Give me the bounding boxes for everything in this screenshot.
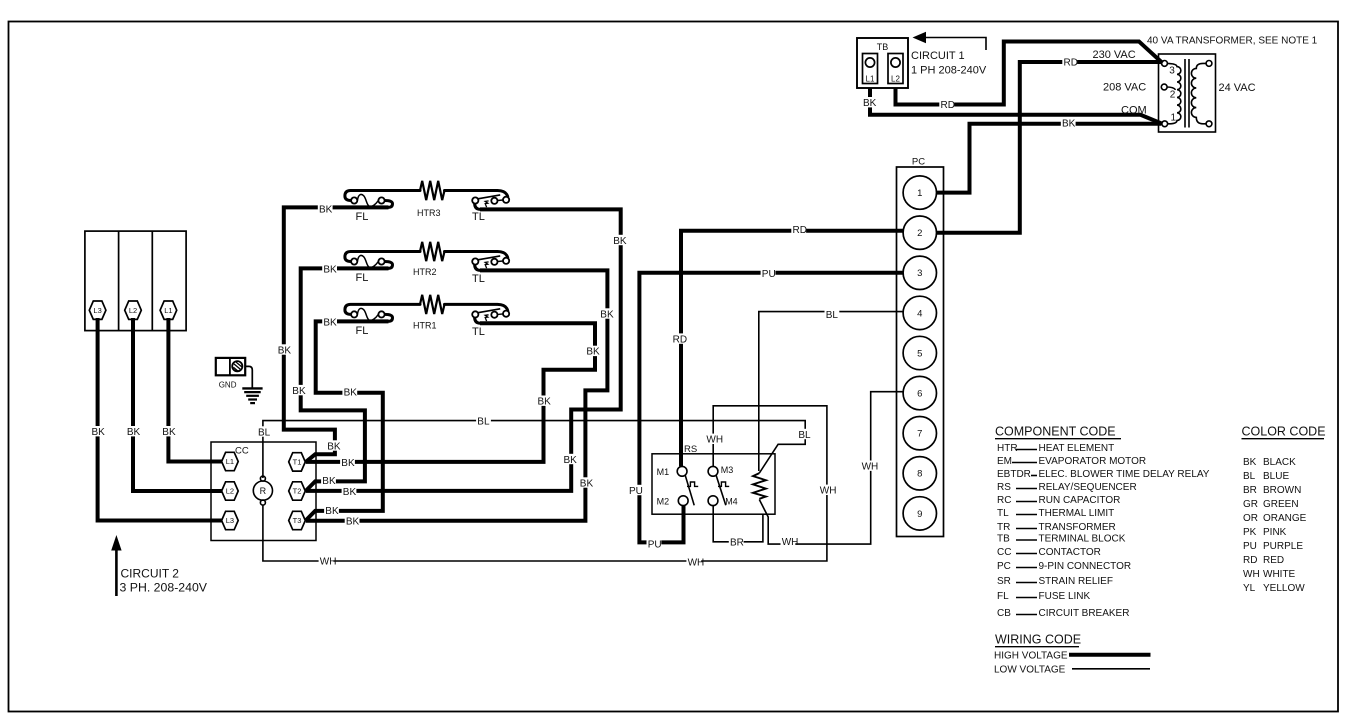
connector PC 9-pin	[897, 157, 944, 537]
svg-text:FL: FL	[356, 272, 369, 284]
svg-text:BK: BK	[325, 506, 339, 517]
svg-text:CIRCUIT BREAKER: CIRCUIT BREAKER	[1039, 608, 1130, 619]
contact M4	[708, 496, 718, 506]
svg-text:RS: RS	[997, 482, 1011, 493]
net label BK at T2 return	[342, 486, 357, 498]
svg-text:BL: BL	[477, 416, 490, 427]
svg-text:BROWN: BROWN	[1263, 485, 1301, 496]
svg-text:3: 3	[917, 268, 922, 279]
svg-text:L2: L2	[891, 75, 900, 84]
wire RD PC pin 2 to RS M1	[681, 231, 903, 467]
ground lug GND	[216, 358, 245, 375]
wire BR RS M4 to resistor bottom	[713, 506, 763, 542]
svg-text:L1: L1	[164, 306, 172, 315]
svg-text:RD: RD	[673, 334, 687, 345]
net label WH at resistor bottom	[781, 536, 799, 548]
svg-text:EM: EM	[997, 456, 1012, 467]
svg-text:BR: BR	[730, 537, 744, 548]
svg-text:BLACK: BLACK	[1263, 457, 1296, 468]
breaker terminal L1	[160, 301, 177, 319]
svg-text:TL: TL	[472, 326, 485, 338]
CC coil R	[253, 476, 272, 505]
svg-text:PU: PU	[648, 540, 662, 551]
svg-text:YELLOW: YELLOW	[1263, 583, 1305, 594]
net label WH bus left	[319, 555, 337, 567]
svg-text:ORANGE: ORANGE	[1263, 513, 1307, 524]
svg-text:TL: TL	[997, 508, 1009, 519]
svg-text:FUSE LINK: FUSE LINK	[1039, 591, 1091, 602]
svg-text:WHITE: WHITE	[1263, 569, 1296, 580]
svg-text:LOW VOLTAGE: LOW VOLTAGE	[994, 664, 1066, 675]
svg-text:EVAPORATOR MOTOR: EVAPORATOR MOTOR	[1039, 456, 1147, 467]
svg-text:BK: BK	[538, 397, 552, 408]
svg-text:BK: BK	[127, 427, 141, 438]
svg-text:RD: RD	[941, 100, 955, 111]
svg-text:PK: PK	[1243, 527, 1257, 538]
net label RD PC pin 2 run	[791, 224, 807, 236]
wire BK from TB L1 to transformer COM tap 1	[870, 86, 1163, 124]
svg-text:BK: BK	[580, 478, 594, 489]
circuit 2 arrow	[111, 535, 121, 596]
svg-text:T1: T1	[293, 458, 302, 467]
net label WH PC pin 6 riser	[860, 461, 878, 473]
svg-text:BL: BL	[826, 310, 839, 321]
net label WH bus right	[686, 557, 704, 569]
heat element HTR2	[420, 242, 445, 261]
net label BK at T3 feed	[324, 505, 339, 517]
net label BK HTR3 return riser	[562, 454, 577, 466]
svg-text:RUN CAPACITOR: RUN CAPACITOR	[1039, 495, 1121, 506]
heat element HTR3	[420, 181, 445, 200]
resistor (sequencer heater element)	[753, 473, 766, 499]
svg-text:BK: BK	[863, 98, 877, 109]
svg-text:L1: L1	[866, 75, 875, 84]
svg-text:FL: FL	[356, 325, 369, 337]
net label BK HTR2 TL riser	[599, 308, 614, 320]
svg-text:230 VAC: 230 VAC	[1093, 49, 1136, 61]
svg-text:CONTACTOR: CONTACTOR	[1039, 547, 1101, 558]
svg-text:BK: BK	[319, 204, 333, 215]
net label BL at resistor	[797, 429, 812, 441]
svg-text:RD: RD	[1064, 58, 1078, 69]
svg-text:9-PIN CONNECTOR: 9-PIN CONNECTOR	[1039, 561, 1132, 572]
net label BK at T1 return	[340, 457, 355, 469]
fuse link FL (HTR2 branch)	[345, 252, 420, 269]
svg-text:3 PH. 208-240V: 3 PH. 208-240V	[120, 580, 208, 594]
contact M3	[708, 466, 729, 505]
breaker terminal L3	[89, 301, 106, 319]
fuse link FL (HTR1 branch)	[345, 304, 420, 321]
svg-text:TL: TL	[472, 211, 485, 223]
net label BK at T3 return	[345, 516, 360, 528]
circuit breaker CB bank	[85, 231, 186, 331]
svg-text:1: 1	[917, 188, 922, 199]
net label BK T3-HTR1 run	[342, 386, 357, 398]
wire BL PC pin 4 to RS resistor top	[759, 312, 904, 471]
svg-text:HIGH VOLTAGE: HIGH VOLTAGE	[994, 650, 1068, 661]
svg-text:YL: YL	[1243, 583, 1256, 594]
wire BK HTR3 thermal limit back to CC T2	[306, 209, 621, 491]
circuit 1 pointer arrow	[913, 32, 987, 50]
net label BK HTR1 TL riser	[585, 346, 600, 358]
ground symbol	[242, 366, 262, 403]
net label BK at T2 feed	[321, 475, 336, 487]
svg-text:L2: L2	[129, 306, 137, 315]
svg-text:CC: CC	[997, 547, 1011, 558]
svg-text:2: 2	[1170, 90, 1176, 101]
svg-text:GND: GND	[219, 380, 237, 389]
svg-text:ELEC. BLOWER TIME DELAY RELAY: ELEC. BLOWER TIME DELAY RELAY	[1039, 469, 1210, 480]
net label BK HTR2 feed	[322, 263, 337, 275]
CC terminal T2	[289, 482, 306, 500]
breaker terminal L2	[125, 301, 142, 319]
svg-text:COM: COM	[1121, 105, 1147, 117]
svg-text:BK: BK	[600, 309, 614, 320]
svg-text:GREEN: GREEN	[1263, 499, 1299, 510]
svg-text:M3: M3	[721, 465, 734, 475]
svg-text:WH: WH	[1243, 569, 1260, 580]
wire BK breaker L3 to CC L3	[98, 318, 222, 521]
svg-text:40 VA TRANSFORMER, SEE NOTE 1: 40 VA TRANSFORMER, SEE NOTE 1	[1147, 36, 1318, 47]
svg-text:BL: BL	[258, 427, 271, 438]
svg-text:BL: BL	[798, 430, 811, 441]
svg-text:COMPONENT CODE: COMPONENT CODE	[995, 425, 1116, 439]
net label PU PC pin 3 run	[761, 268, 776, 280]
net label BK at T1 feed	[326, 440, 341, 452]
svg-text:BK: BK	[343, 487, 357, 498]
svg-text:L1: L1	[226, 457, 234, 466]
svg-text:PC: PC	[912, 157, 925, 168]
svg-text:M4: M4	[725, 496, 738, 506]
svg-text:7: 7	[917, 429, 922, 440]
svg-text:BK: BK	[162, 427, 176, 438]
svg-text:BK: BK	[346, 517, 360, 528]
wire BK HTR2 thermal limit back to CC T3	[306, 270, 608, 520]
thermal limit TL (HTR1 branch)	[445, 304, 510, 323]
wire BK breaker L1 to CC L1	[168, 318, 221, 462]
net label RD (TB L2 wire)	[939, 99, 955, 111]
svg-text:RD: RD	[793, 225, 807, 236]
svg-text:OR: OR	[1243, 513, 1258, 524]
net label BK (TB L1 wire)	[862, 97, 877, 109]
svg-text:1: 1	[1171, 113, 1177, 124]
svg-text:RED: RED	[1263, 555, 1284, 566]
svg-text:CIRCUIT 2: CIRCUIT 2	[121, 567, 180, 581]
svg-text:WH: WH	[782, 537, 799, 548]
svg-text:9: 9	[917, 509, 922, 520]
svg-text:SR: SR	[997, 576, 1011, 587]
relay/sequencer RS	[652, 454, 775, 514]
svg-text:WH: WH	[820, 486, 837, 497]
net label BK HTR2 return riser	[579, 477, 594, 489]
svg-text:HTR1: HTR1	[413, 320, 437, 330]
svg-text:EBTDR: EBTDR	[997, 469, 1031, 480]
svg-text:PU: PU	[762, 269, 776, 280]
svg-text:BK: BK	[341, 458, 355, 469]
svg-text:RELAY/SEQUENCER: RELAY/SEQUENCER	[1039, 482, 1137, 493]
svg-text:TRANSFORMER: TRANSFORMER	[1039, 522, 1116, 533]
wire RD from TB L2 to transformer 230VAC tap 3	[896, 42, 1163, 105]
svg-text:208 VAC: 208 VAC	[1103, 82, 1146, 94]
net label RD (230VAC wire)	[1062, 57, 1078, 69]
net label WH riser	[819, 485, 837, 497]
svg-text:TB: TB	[997, 534, 1010, 545]
svg-text:BK: BK	[1243, 457, 1257, 468]
svg-text:BK: BK	[586, 347, 600, 358]
wire BK CC T2 to HTR2 fuse link (branch feed)	[301, 268, 389, 491]
wire BK CC T3 to HTR1 fuse link (branch feed)	[306, 321, 389, 520]
svg-text:5: 5	[917, 348, 922, 359]
svg-text:BL: BL	[1243, 471, 1256, 482]
net label BK T2-HTR2 riser	[291, 385, 306, 397]
svg-text:L3: L3	[93, 306, 101, 315]
net label BK phase L1	[161, 426, 176, 438]
net label BK phase L3	[90, 426, 105, 438]
svg-text:HTR: HTR	[997, 443, 1018, 454]
svg-text:HEAT ELEMENT: HEAT ELEMENT	[1039, 443, 1115, 454]
svg-text:RC: RC	[997, 495, 1011, 506]
transformer TR 40VA	[1159, 54, 1216, 132]
svg-text:HTR2: HTR2	[413, 267, 437, 277]
svg-text:FL: FL	[356, 211, 369, 223]
CC terminal L3	[222, 511, 239, 529]
svg-text:M2: M2	[657, 496, 670, 506]
svg-text:6: 6	[917, 389, 922, 400]
svg-text:PINK: PINK	[1263, 527, 1287, 538]
net label BL PC pin 4	[825, 309, 840, 321]
svg-text:BK: BK	[278, 345, 292, 356]
svg-text:L3: L3	[226, 516, 234, 525]
svg-text:COLOR CODE: COLOR CODE	[1242, 425, 1326, 439]
net label RD PC pin 2 riser	[671, 333, 687, 345]
svg-text:RS: RS	[684, 444, 697, 455]
svg-text:CC: CC	[235, 445, 249, 456]
svg-text:CB: CB	[997, 608, 1011, 619]
svg-text:WH: WH	[688, 558, 705, 569]
svg-text:M1: M1	[657, 467, 670, 477]
svg-text:TERMINAL BLOCK: TERMINAL BLOCK	[1039, 534, 1126, 545]
net label PU at M2	[647, 539, 662, 551]
wire BK HTR1 thermal limit back to CC T1	[306, 323, 595, 462]
net label WH at M3	[705, 434, 723, 446]
thermal limit TL (HTR3 branch)	[445, 191, 510, 210]
svg-text:4: 4	[917, 308, 922, 319]
svg-text:BK: BK	[92, 427, 106, 438]
wire BK CC T1 to HTR3 fuse link (branch feed)	[284, 207, 389, 462]
svg-text:WH: WH	[706, 435, 723, 446]
svg-text:2: 2	[917, 228, 922, 239]
svg-text:WIRING CODE: WIRING CODE	[995, 633, 1081, 647]
net label BK T1-HTR3 riser	[277, 344, 292, 356]
svg-text:WH: WH	[862, 462, 879, 473]
CC terminal L1	[222, 452, 239, 470]
fuse link FL (HTR3 branch)	[345, 191, 420, 208]
svg-text:HTR3: HTR3	[417, 208, 441, 218]
svg-text:8: 8	[917, 469, 922, 480]
wire WH PC pin 6 to RS resistor bottom	[759, 392, 903, 544]
svg-text:RD: RD	[1243, 555, 1257, 566]
svg-text:BK: BK	[322, 476, 336, 487]
svg-text:PC: PC	[997, 561, 1011, 572]
svg-text:PURPLE: PURPLE	[1263, 541, 1303, 552]
svg-text:PU: PU	[1243, 541, 1257, 552]
wire WH RS M3 to CC coil (bus)	[263, 406, 827, 561]
svg-text:BK: BK	[564, 455, 578, 466]
svg-text:R: R	[260, 486, 267, 496]
svg-text:BK: BK	[327, 441, 341, 452]
svg-text:GR: GR	[1243, 499, 1258, 510]
net label BL at CC coil	[257, 426, 272, 438]
net label BK HTR1 return riser	[536, 396, 551, 408]
svg-text:BK: BK	[613, 236, 627, 247]
svg-text:THERMAL LIMIT: THERMAL LIMIT	[1039, 508, 1115, 519]
CC terminal T3	[289, 511, 306, 529]
svg-text:BR: BR	[1243, 485, 1257, 496]
svg-text:3: 3	[1169, 66, 1175, 77]
svg-text:WH: WH	[320, 556, 337, 567]
net label PU riser	[628, 485, 643, 497]
svg-text:BK: BK	[292, 386, 306, 397]
svg-text:FL: FL	[997, 591, 1009, 602]
wire RD from transformer tap 3 to PC pin 2	[937, 62, 1162, 233]
wire BL CC coil to RS resistor	[263, 421, 805, 478]
svg-text:L2: L2	[226, 487, 234, 496]
contactor CC	[211, 442, 316, 541]
wire BK from transformer tap 1 to PC pin 1	[937, 124, 1161, 193]
CC terminal T1	[289, 453, 306, 471]
thermal limit TL (HTR2 branch)	[445, 252, 510, 271]
svg-text:BK: BK	[1062, 119, 1076, 130]
contact M1	[677, 466, 698, 505]
svg-text:BK: BK	[323, 318, 337, 329]
svg-text:CIRCUIT 1: CIRCUIT 1	[911, 50, 965, 62]
svg-text:STRAIN RELIEF: STRAIN RELIEF	[1039, 576, 1113, 587]
svg-text:PU: PU	[629, 486, 643, 497]
svg-text:TL: TL	[472, 273, 485, 285]
CC terminal L2	[222, 482, 239, 500]
svg-text:BK: BK	[323, 264, 337, 275]
net label BK HTR1 feed	[322, 317, 337, 329]
net label BK HTR3 feed	[318, 203, 333, 215]
net label BK phase L2	[126, 426, 141, 438]
svg-text:T2: T2	[293, 487, 302, 496]
net label BL coil run	[476, 415, 491, 427]
svg-text:24 VAC: 24 VAC	[1219, 82, 1256, 94]
svg-text:TR: TR	[997, 522, 1010, 533]
heat element HTR1	[420, 295, 445, 314]
net label BR at M4	[729, 536, 744, 548]
wire BK breaker L2 to CC L2	[133, 318, 222, 491]
svg-text:T3: T3	[293, 516, 302, 525]
contact M2	[678, 496, 688, 506]
wire PU PC pin 3 to RS M2	[639, 273, 903, 543]
svg-text:TB: TB	[877, 42, 889, 52]
net label BK (COM wire)	[1061, 118, 1076, 130]
svg-text:BLUE: BLUE	[1263, 471, 1289, 482]
svg-text:BK: BK	[344, 387, 358, 398]
terminal block TB	[857, 38, 908, 88]
svg-text:1 PH 208-240V: 1 PH 208-240V	[911, 65, 987, 77]
net label BK HTR3 TL riser	[612, 235, 627, 247]
